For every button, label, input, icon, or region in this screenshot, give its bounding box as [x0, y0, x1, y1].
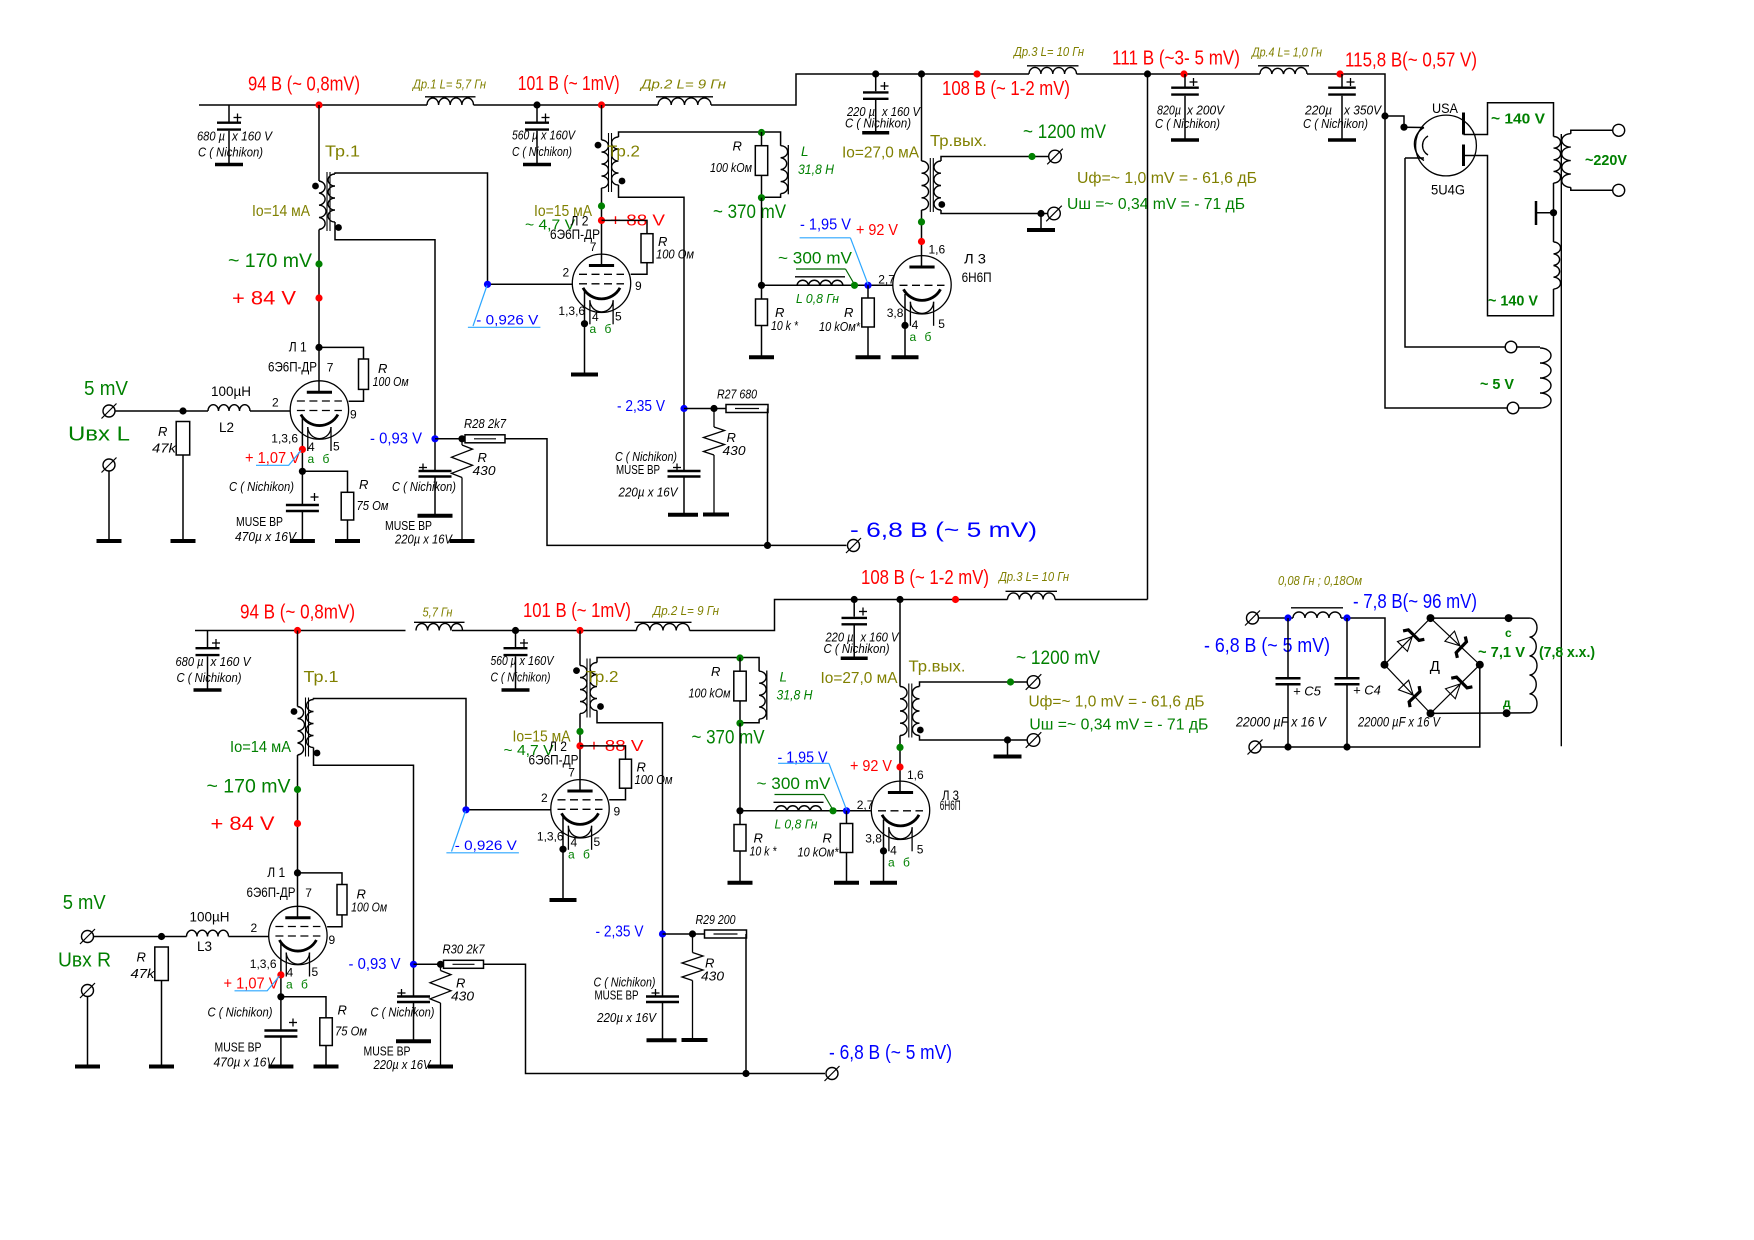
choke filament 0.08H: [1291, 608, 1343, 618]
svg-text:Л 1: Л 1: [267, 864, 285, 880]
leader +1.07V (R channel): [235, 976, 280, 991]
terminal output cold: [1046, 206, 1062, 222]
wire anode2 to HV bottom: [1464, 156, 1554, 316]
leader -0.926V (R channel): [446, 811, 519, 853]
wire rail to 108V level (R channel): [690, 600, 1008, 631]
tube L1 6E6P-DR (L channel): [290, 381, 348, 451]
L1 pin labels (R channel): [250, 886, 336, 980]
node cap560 junction (R channel): [512, 627, 519, 634]
resistor R 47k (L channel): [176, 422, 190, 456]
node -0.93V (L channel): [431, 435, 438, 442]
svg-text:100µН: 100µН: [190, 910, 230, 925]
svg-text:Io=14 мА: Io=14 мА: [252, 203, 310, 220]
label ~4.7V (L channel): [525, 217, 575, 234]
svg-text:- 2,35 V: - 2,35 V: [617, 398, 665, 415]
wire down to L3 grid row (R channel): [739, 723, 741, 811]
wire L3 cathode (R channel): [883, 820, 885, 882]
wire R75 to ground (R channel): [325, 1046, 327, 1066]
wire Tr.out secondary bottom (R channel): [920, 736, 1028, 741]
wire rail after Dr.1 (R channel): [452, 630, 637, 632]
svg-text:а: а: [590, 322, 597, 336]
label MUSE cap B (R channel): [594, 975, 658, 1026]
label C470 (L channel): [229, 479, 297, 544]
svg-text:C ( Nichikon): C ( Nichikon): [1155, 116, 1220, 131]
svg-text:USA: USA: [1432, 100, 1459, 116]
label R75 (R channel): [335, 1003, 367, 1039]
node upper (R100k/L31.8H top) (L channel): [758, 129, 765, 136]
svg-text:5: 5: [917, 843, 924, 857]
wire L1 cathode (L channel): [301, 417, 303, 504]
wire input (R channel): [94, 936, 187, 938]
svg-text:R: R: [823, 831, 832, 846]
node +1.07V (L channel): [299, 446, 306, 453]
wire -6.8V input: [1259, 617, 1294, 619]
svg-text:5 mV: 5 mV: [63, 892, 107, 914]
label C470 (R channel): [208, 1005, 276, 1070]
wire Tr.2 primary bottom to L2 plate (R channel): [579, 714, 581, 792]
L3 pin labels (L channel): [878, 243, 945, 332]
label D: [1430, 658, 1440, 675]
svg-text:220µ x 16V: 220µ x 16V: [596, 1010, 657, 1025]
svg-text:2: 2: [541, 791, 548, 805]
label R30 (R channel): [443, 942, 486, 957]
label R10k* (L channel): [771, 305, 799, 333]
node L3 grid row left (L channel): [758, 282, 765, 289]
transformer 220V primary: [1562, 130, 1613, 190]
HV center tap: [1536, 201, 1557, 225]
choke Dr.4: [1258, 66, 1309, 74]
wire L1 anode to R100 (R channel): [298, 873, 343, 885]
node -0.926V (R channel): [462, 806, 469, 813]
svg-text:31,8 Н: 31,8 Н: [798, 162, 834, 177]
label Tr.out (L channel): [930, 133, 987, 150]
label d: [1503, 696, 1511, 710]
label R27 (L channel): [717, 387, 758, 402]
label L3 tube (R channel): [940, 787, 961, 813]
node ~4.7V (R channel): [576, 728, 583, 735]
label C4: [1353, 683, 1381, 698]
svg-text:101 В (~ 1mV): 101 В (~ 1mV): [523, 600, 631, 622]
node R430 branch (L channel): [458, 435, 465, 442]
resistor R27 (L channel): [726, 405, 768, 413]
svg-text:680 µ: 680 µ: [197, 129, 225, 144]
label R47k (L channel): [152, 424, 178, 456]
svg-text:Др.2 L= 9 Гн: Др.2 L= 9 Гн: [639, 77, 726, 92]
label MUSE cap A (L channel): [385, 479, 456, 547]
wire 94V rail (R channel): [195, 630, 406, 632]
ground R10k* (R channel): [728, 881, 753, 885]
wire 5V top: [1517, 346, 1540, 348]
label L1 (L channel): [268, 339, 317, 375]
svg-text:- 6,8 В (~ 5 mV): - 6,8 В (~ 5 mV): [850, 519, 1037, 542]
node 101V (R channel): [576, 627, 583, 634]
transformer HV winding upper: [1554, 137, 1561, 184]
wire anode1 to HV top: [1464, 103, 1554, 137]
svg-text:б: б: [323, 452, 330, 466]
wire 94V rail (L channel): [199, 104, 427, 106]
label C5: [1293, 684, 1322, 699]
svg-text:б: б: [301, 977, 308, 991]
svg-text:C ( Nichikon): C ( Nichikon): [177, 670, 242, 685]
svg-text:Тр.2: Тр.2: [607, 144, 640, 161]
node output cold: [1037, 210, 1044, 217]
ground R430-2 (R channel): [682, 1038, 708, 1042]
ground R75 (R channel): [314, 1065, 339, 1069]
label R47k (R channel): [131, 950, 157, 982]
svg-text:+ 84 V: + 84 V: [232, 289, 296, 310]
node rail/rectifier: [1381, 112, 1388, 119]
label Io=15mA (R channel): [513, 729, 571, 746]
label Dr.1 (R channel): [423, 605, 453, 620]
node 111V: [1180, 70, 1187, 77]
choke Dr.3 (R channel): [1006, 591, 1058, 599]
svg-text:Др.4 L= 1,0 Гн: Др.4 L= 1,0 Гн: [1250, 45, 1322, 60]
node output transformer junction (R channel): [896, 596, 903, 603]
node -0.93V (R channel): [410, 961, 417, 968]
label R10k* (R channel): [750, 831, 778, 859]
label Io=14mA (L channel): [252, 203, 310, 220]
transformer Tr.out (R channel): [900, 684, 920, 738]
svg-text:111 В (~3- 5 mV): 111 В (~3- 5 mV): [1112, 48, 1240, 70]
svg-text:47k: 47k: [152, 441, 178, 456]
wire Tr.2 secondary top to RL network (L channel): [619, 132, 781, 146]
node 108V (L channel): [973, 70, 980, 77]
svg-text:5: 5: [594, 835, 601, 849]
svg-text:б: б: [903, 856, 910, 870]
label Tr.out (R channel): [909, 659, 966, 676]
label USA: [1432, 100, 1459, 116]
svg-text:100 kОм: 100 kОм: [689, 686, 731, 701]
svg-text:430: 430: [451, 989, 475, 1004]
Tr.out secondary polarity dot (L channel): [938, 201, 945, 208]
inductor L2 (L channel): [208, 405, 250, 411]
wire to R75 (R channel): [281, 997, 326, 1018]
label Dr.2 (L channel): [639, 77, 726, 92]
svg-text:~220V: ~220V: [1585, 152, 1627, 169]
svg-text:C ( Nichikon): C ( Nichikon): [1303, 116, 1368, 131]
svg-text:+ C4: + C4: [1353, 683, 1381, 698]
L2 pin labels (L channel): [558, 240, 642, 324]
label R100-2 (L channel): [656, 234, 694, 262]
node ~300mV (R channel): [829, 807, 836, 814]
svg-text:6Э6П-ДР: 6Э6П-ДР: [268, 359, 317, 375]
ground input (R channel): [75, 1065, 100, 1069]
label +84V (R channel): [211, 814, 275, 835]
svg-text:L 0,8 Гн: L 0,8 Гн: [775, 817, 818, 832]
svg-text:100 Ом: 100 Ом: [351, 900, 387, 915]
wire output ground (R channel): [1007, 740, 1009, 755]
svg-text:1,3,6: 1,3,6: [271, 432, 298, 446]
node L1 anode (R channel): [294, 869, 301, 876]
svg-text:б: б: [925, 330, 932, 344]
svg-text:~ 300 mV: ~ 300 mV: [778, 249, 853, 268]
svg-text:2,7: 2,7: [857, 798, 874, 812]
svg-text:- 0,93 V: - 0,93 V: [370, 431, 422, 448]
label R430-1 (L channel): [473, 450, 497, 478]
wire Tr.out primary top lead (R channel): [899, 600, 901, 687]
svg-text:5: 5: [615, 310, 622, 324]
label L2 tube (L channel): [550, 213, 600, 243]
node junction to R channel: [1144, 70, 1151, 77]
label R75 (L channel): [357, 477, 389, 513]
svg-text:Io=27,0 мА: Io=27,0 мА: [842, 145, 919, 162]
label Uf (R channel): [1029, 694, 1205, 711]
svg-text:C ( Nichikon): C ( Nichikon): [371, 1005, 435, 1020]
svg-text:+ C5: + C5: [1293, 684, 1322, 699]
node R430-2 branch (R channel): [689, 930, 696, 937]
svg-text:680 µ: 680 µ: [176, 654, 204, 669]
node upper (R100k/L31.8H top) (R channel): [736, 654, 743, 661]
node ~4.7V (L channel): [598, 202, 605, 209]
svg-text:7: 7: [568, 766, 575, 780]
label L0.8H (R channel): [775, 817, 818, 832]
svg-text:а: а: [888, 856, 895, 870]
svg-text:22000 µF x 16 V: 22000 µF x 16 V: [1357, 715, 1441, 730]
tube 5U4G: [1414, 113, 1476, 176]
wire R28 to -6.8V rail (R channel): [484, 964, 826, 1073]
capacitor 560u x 160V (L channel): [523, 105, 551, 165]
wire input (L channel): [115, 410, 208, 412]
resistor R 100 Ohm (L1 screen) (R channel): [337, 885, 347, 915]
svg-text:~ 140 V: ~ 140 V: [1491, 111, 1545, 128]
label -7.8V: [1353, 591, 1477, 613]
node +84V (R channel): [294, 820, 301, 827]
terminal output cold (R channel): [1026, 732, 1042, 748]
leader -1.95V (L channel): [800, 238, 868, 284]
label Io=27mA (R channel): [821, 670, 898, 687]
wire -0.93 to R28 (L channel): [435, 438, 465, 440]
wire terminal2 ground (L channel): [108, 471, 110, 540]
svg-text:100 Ом: 100 Ом: [373, 374, 409, 389]
svg-text:- 0,926 V: - 0,926 V: [455, 837, 518, 853]
capacitor C 470u MUSE (L channel): [286, 493, 319, 540]
capacitor 680u x 160V (L channel): [215, 105, 243, 165]
svg-text:108 В (~ 1-2 mV): 108 В (~ 1-2 mV): [861, 567, 989, 589]
node C5 top: [1284, 614, 1291, 621]
label 101V (L channel): [518, 73, 620, 95]
ground MUSE cap B (R channel): [647, 1038, 677, 1042]
transformer core: [1560, 134, 1562, 746]
label ~170mV (R channel): [207, 777, 291, 798]
label R430-2 (L channel): [723, 430, 747, 458]
node lower (~370mV) (R channel): [736, 720, 743, 727]
label Io=27mA (L channel): [842, 145, 919, 162]
wire Tr.1 primary bottom to L1 plate (L channel): [318, 230, 320, 393]
svg-text:~ 1200 mV: ~ 1200 mV: [1016, 648, 1100, 669]
ground R430-1 (R channel): [428, 1065, 453, 1069]
wire R28 to -6.8V rail (L channel): [505, 439, 847, 546]
wire +88V to R100-2 (L channel): [602, 220, 648, 233]
svg-text:470µ x 16V: 470µ x 16V: [214, 1055, 276, 1070]
label 108V (R channel): [861, 567, 989, 589]
label Tr.2 (R channel): [586, 669, 619, 686]
input terminal 2 (L channel): [102, 458, 117, 473]
terminal 220V top: [1613, 124, 1625, 136]
svg-text:Uф=~ 1,0 mV = - 61,6 дБ: Uф=~ 1,0 mV = - 61,6 дБ: [1077, 170, 1257, 187]
label -0.926V (L channel): [476, 312, 539, 328]
wire grid row (L channel): [762, 284, 893, 286]
label ~370mV (L channel): [713, 202, 786, 223]
node bridge top: [1427, 614, 1435, 622]
label -6.8V (R channel): [829, 1042, 952, 1064]
ground MUSE cap A (R channel): [396, 1039, 431, 1043]
svg-text:Uф=~ 1,0 mV = - 61,6 дБ: Uф=~ 1,0 mV = - 61,6 дБ: [1029, 694, 1205, 711]
svg-text:1,6: 1,6: [907, 768, 924, 782]
node ~170mV (L channel): [315, 260, 322, 267]
wire Tr.out primary top lead (L channel): [921, 74, 923, 161]
resistor R30 (R channel): [444, 960, 484, 968]
capacitor 220u x 350V: [1328, 74, 1356, 140]
resistor R28 (L channel): [465, 435, 505, 443]
svg-text:Тр.1: Тр.1: [304, 669, 339, 686]
node +1.07V (R channel): [277, 971, 284, 978]
svg-text:10 kОм*: 10 kОм*: [798, 845, 840, 860]
wire terminal2 ground (R channel): [87, 997, 89, 1066]
wire R100 to L1 screen (R channel): [327, 915, 342, 927]
svg-text:1,3,6: 1,3,6: [558, 304, 585, 318]
svg-text:x 160 V: x 160 V: [210, 654, 252, 669]
node 108V (R channel): [952, 596, 959, 603]
wire R47k to ground (L channel): [182, 455, 184, 540]
capacitor 680u x 160V (R channel): [194, 631, 222, 691]
transformer 7.1V winding: [1530, 618, 1538, 713]
leader ~300mV (R channel): [775, 795, 834, 811]
svg-text:- 7,8 В(~ 96 mV): - 7,8 В(~ 96 mV): [1353, 591, 1477, 613]
label Dr.2 (R channel): [651, 603, 719, 618]
svg-text:C ( Nichikon): C ( Nichikon): [198, 145, 263, 160]
svg-text:7: 7: [305, 886, 312, 900]
label ~170mV (L channel): [228, 251, 312, 272]
label ~300mV (L channel): [778, 249, 853, 268]
label ~5V: [1480, 376, 1514, 393]
wire R27 to -6.8V rail (L channel): [767, 409, 769, 546]
svg-text:Л 1: Л 1: [289, 339, 307, 355]
svg-text:5: 5: [938, 317, 945, 331]
node R430 branch (R channel): [437, 961, 444, 968]
resistor R 100kOhm (R channel): [734, 658, 746, 723]
node L3 grid row left (R channel): [736, 807, 743, 814]
wire L2 grid from -0.926V node (L channel): [488, 283, 573, 285]
svg-text:115,8 В(~ 0,57 V): 115,8 В(~ 0,57 V): [1345, 50, 1477, 72]
label -6.8V (L channel): [850, 519, 1037, 542]
wire filament to 5V winding top: [1405, 158, 1505, 347]
wire rail 111V section: [1077, 73, 1261, 75]
svg-text:+ 92 V: + 92 V: [856, 222, 898, 239]
svg-text:~ 370 mV: ~ 370 mV: [692, 728, 765, 749]
node +92V (L channel): [918, 238, 925, 245]
node -2.35V (R channel): [659, 930, 666, 937]
tube L2 6E6P-DR (L channel): [572, 254, 630, 324]
label 680u value (L channel): [197, 129, 273, 160]
node -6.8V rail junction (L channel): [764, 542, 771, 549]
label +88V (L channel): [610, 213, 665, 230]
label 220u350 value: [1303, 103, 1382, 132]
svg-text:10 kОм*: 10 kОм*: [819, 319, 861, 334]
ground R75 (L channel): [335, 539, 360, 543]
label Tr.2 (L channel): [607, 144, 640, 161]
label L3 tube (L channel): [962, 251, 992, 285]
label R100k (R channel): [689, 664, 731, 701]
node green above plate (L channel): [918, 218, 925, 225]
label MUSE cap B (L channel): [615, 449, 679, 500]
label -0.93V (R channel): [349, 956, 401, 973]
choke Dr.1 (L channel): [425, 97, 476, 105]
node 220u cap junction (L channel): [872, 70, 879, 77]
node +88V (L channel): [598, 217, 605, 224]
resistor R 430 (cathode2 filter) (L channel): [452, 439, 473, 540]
node -0.926V (L channel): [484, 281, 491, 288]
terminal -6.8V (L channel): [846, 538, 861, 553]
label 22000uF C5: [1235, 715, 1328, 730]
inductor L 0.8H (R channel): [774, 802, 824, 811]
svg-text:560 µ: 560 µ: [512, 128, 538, 143]
node -6.8V rail junction (R channel): [742, 1070, 749, 1077]
terminal 5V top: [1505, 341, 1517, 353]
node L2 cathode (R channel): [559, 846, 566, 853]
node -1.95V (L channel): [864, 282, 871, 289]
node 220u cap junction (R channel): [851, 596, 858, 603]
label c: [1505, 626, 1512, 640]
svg-text:а: а: [910, 330, 917, 344]
svg-text:94 В (~ 0,8mV): 94 В (~ 0,8mV): [240, 602, 355, 624]
capacitor MUSE 220u (L2 bias) (R channel): [646, 989, 679, 1039]
svg-text:L3: L3: [197, 939, 212, 954]
svg-text:R: R: [338, 1003, 347, 1018]
svg-text:560 µ: 560 µ: [491, 653, 517, 668]
transformer HV winding lower: [1554, 242, 1561, 289]
label +84V (L channel): [232, 289, 296, 310]
svg-text:+ 1,07 V: + 1,07 V: [245, 450, 300, 467]
node 94V (L channel): [315, 101, 322, 108]
resistor R29 (R channel): [705, 930, 747, 938]
node bridge bottom: [1427, 709, 1435, 717]
svg-text:0,08 Гн ; 0,18Ом: 0,08 Гн ; 0,18Ом: [1278, 573, 1362, 588]
inductor L3 (R channel): [187, 930, 229, 936]
label L2/L3 (R channel): [197, 939, 212, 954]
node rectifier filament top: [1400, 124, 1407, 131]
ground MUSE cap B (L channel): [668, 513, 698, 517]
label Tr.1 (R channel): [304, 669, 339, 686]
svg-text:x 160V: x 160V: [540, 128, 576, 143]
svg-text:+ 92 V: + 92 V: [850, 758, 892, 775]
node L1 cathode junction (L channel): [299, 468, 306, 475]
wire R100 to L1 screen (L channel): [349, 389, 364, 401]
svg-text:100 kОм: 100 kОм: [710, 160, 752, 175]
resistor R 75 Ohm (L channel): [341, 492, 354, 520]
node winding d: [1503, 709, 1511, 717]
svg-text:C ( Nichikon): C ( Nichikon): [845, 116, 911, 131]
node ~300mV (L channel): [851, 282, 858, 289]
wire rail after Dr.1 (L channel): [474, 104, 659, 106]
Tr.out secondary polarity dot (R channel): [917, 727, 924, 734]
transformer 5V winding: [1540, 348, 1551, 408]
node C4 top: [1343, 614, 1350, 621]
ground C470 (L channel): [290, 539, 315, 543]
resistor R 10k* (L channel): [756, 285, 768, 355]
svg-text:- 6,8 В (~ 5 mV): - 6,8 В (~ 5 mV): [1204, 635, 1330, 657]
wire R47k to ground (R channel): [161, 981, 163, 1066]
wire down to L3 grid row (L channel): [761, 198, 763, 286]
label 560u value (L channel): [512, 128, 576, 160]
label 5mV (R channel): [63, 892, 107, 914]
svg-text:(7,8 х.х.): (7,8 х.х.): [1539, 644, 1595, 661]
svg-text:Л 3: Л 3: [964, 251, 986, 267]
label Dr.3 (R channel): [997, 569, 1069, 584]
label 7.8xx: [1539, 644, 1595, 661]
label 94V (L channel): [248, 74, 360, 96]
resistor R 10kOhm* (L channel): [862, 285, 875, 355]
svg-text:22000 µF x 16 V: 22000 µF x 16 V: [1235, 715, 1328, 730]
